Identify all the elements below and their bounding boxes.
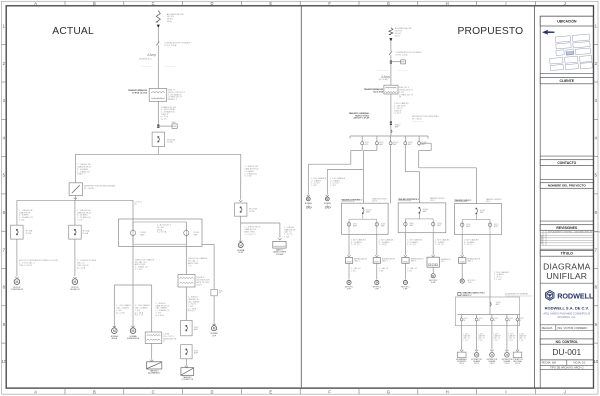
svg-text:NOMBRE DEL PROYECTO: NOMBRE DEL PROYECTO [548,184,586,188]
wire circuit 5 feeds panel 3 [421,142,432,144]
secondary bus [17,199,133,201]
svg-text:REALIZA: REALIZA [542,326,553,330]
svg-text:RODWELL: RODWELL [557,292,594,301]
branch circuit 1 [461,315,463,318]
branch circuit 5 [517,315,519,318]
svg-text:(100KVA, 4.2): (100KVA, 4.2) [139,58,152,61]
motor compressor 2 [72,279,78,285]
fan load [505,353,510,358]
motor [375,280,379,284]
main bus 220V [75,153,240,155]
svg-text:B: B [93,1,96,6]
motor pump P1 [306,197,310,201]
svg-text:PROPUESTO: PROPUESTO [458,26,524,37]
svg-text:10: 10 [1,359,6,364]
svg-text:ACTUAL: ACTUAL [52,26,94,37]
svg-text:NO. CONTROL: NO. CONTROL [556,340,578,344]
lighting panel A [147,362,162,369]
svg-text:F: F [328,1,331,6]
panel branch breaker left [348,222,350,223]
svg-text:M: M [132,329,135,333]
wire [376,234,378,255]
utility supply incoming line (zigzag) [156,11,160,22]
wire [185,287,187,321]
breaker for new panel [490,302,491,306]
transformer T1 [149,88,167,101]
arrow [74,198,77,200]
breaker feeder 1 [181,321,193,336]
wire [113,285,115,328]
bus breaker circuit 4 [404,136,406,142]
revision table [540,232,593,234]
transfer switch [69,183,82,196]
arrow [432,255,435,257]
panel branch breaker right [432,221,434,222]
svg-text:FECHA: N/A: FECHA: N/A [542,361,557,365]
bus breaker circuit 1 [361,136,363,142]
svg-text:TÍTULO: TÍTULO [561,251,574,256]
svg-text:4 Amp: 4 Amp [147,53,156,57]
svg-text:D: D [210,1,213,6]
location map blocks [548,34,593,72]
arrow [113,326,116,328]
wire [390,41,392,51]
arrow [490,350,493,352]
bus breaker circuit 2 [376,136,378,142]
arrow [278,238,281,240]
branch circuit 3 [491,315,493,318]
svg-text:UBICACIÓN: UBICACIÓN [557,18,577,23]
wire [461,263,463,279]
wire with tee [240,216,242,223]
svg-text:CLIENTE: CLIENTE [560,79,575,83]
metering CT [390,60,392,61]
svg-text:MED.: MED. [172,122,177,124]
wire [185,359,187,366]
svg-text:kWh: kWh [401,62,405,64]
arrow [516,350,519,352]
arrow [73,277,76,279]
svg-text:M: M [348,281,350,285]
new lighting panel label [458,292,461,295]
wire [16,200,18,225]
svg-text:G: G [387,389,390,394]
svg-text:J: J [564,389,566,394]
svg-text:APODACA, N.L.: APODACA, N.L. [557,315,576,319]
svg-text:__________: __________ [396,69,409,71]
distribution enclosure [455,297,519,326]
breaker feeder 2 [181,345,193,359]
wire [461,234,463,255]
fan load [474,353,479,358]
bus breaker circuit 3 [390,136,392,142]
motor [460,279,464,283]
motor [347,280,351,284]
svg-text:__________: __________ [164,65,177,67]
svg-text:M: M [461,279,463,283]
lighting transformer / regulator [145,332,162,344]
distribution bus [458,314,520,316]
wire circuit 3 feeds panel 1 [390,146,392,203]
motor starter [373,258,380,264]
load panel box [513,352,522,358]
wire [390,94,392,136]
title block [534,6,536,388]
svg-text:M: M [15,280,18,284]
svg-text:__________: __________ [141,65,154,67]
svg-text:M: M [213,327,216,331]
starter [459,258,466,264]
wire [489,234,491,314]
motor main pump [238,243,243,248]
arrow [185,366,188,368]
svg-text:F: F [328,389,331,394]
svg-text:ING. VICTOR CORDERO: ING. VICTOR CORDERO [558,326,588,330]
wire [432,267,434,273]
motor starter [402,258,409,264]
panel main breaker [476,209,477,214]
panel breaker right [185,222,187,230]
svg-text:B: B [93,389,96,394]
arrow [326,195,329,197]
fuse cutout switch [157,42,160,46]
svg-text:EMPLAZAMIENTO GENERAL - DIAGRA: EMPLAZAMIENTO GENERAL - DIAGRAMA UNIFILA… [548,231,600,234]
svg-text:DU-001: DU-001 [552,347,581,357]
svg-text:E: E [269,389,272,394]
panel TABLERO EXISTENTE 2 [398,203,446,233]
metering CT [157,124,159,126]
svg-text:3X30AMP: 3X30AMP [194,350,199,354]
panel breaker left [132,222,134,230]
sub bus [114,284,151,286]
svg-text:UNIFILAR: UNIFILAR [546,271,587,281]
panel branch breaker left [461,222,463,223]
wire circuit 4 feeds panel 2 [404,146,406,172]
location map arrow [542,30,554,34]
arrow [505,350,508,352]
service entrance arrow [157,25,160,28]
arrow [404,255,407,257]
panel main breaker [419,208,420,213]
breaker welding [235,203,247,216]
utility supply proposed (zigzag) [389,28,393,35]
fuse cutout [389,51,392,55]
svg-text:I: I [505,1,506,6]
wire [74,239,76,276]
wire [151,285,153,332]
wire [390,55,392,85]
svg-text:M: M [113,329,116,333]
svg-text:M: M [307,198,309,201]
panel inner bus box [349,219,377,234]
wire [404,263,406,279]
wire [74,154,76,183]
svg-text:CONTACTO: CONTACTO [557,161,576,165]
wire [213,296,215,325]
lighting panel B [181,368,194,376]
motor [431,274,435,278]
svg-text:M: M [404,281,406,285]
date row [540,364,593,366]
svg-text:G: G [387,1,390,6]
motor compressor 1 [14,279,20,285]
service arrow [389,38,392,41]
wire [74,196,76,201]
motor pump P2 [325,197,329,201]
wire [185,244,187,274]
motor pump 2 [130,328,136,334]
realiza row [540,330,593,332]
wire to main bus [157,147,159,155]
svg-text:M: M [432,274,434,278]
arrow [239,200,242,202]
arrow [461,255,464,257]
soft starter drive [427,257,439,267]
arrow [15,277,18,279]
wire [432,233,434,256]
bus breaker circuit 5 [418,136,420,142]
svg-text:10: 10 [593,359,598,364]
svg-text:RODWELL S.A. DE C.V.: RODWELL S.A. DE C.V. [545,305,589,310]
safety switch [211,289,217,296]
wire [376,263,378,279]
wire [157,28,159,42]
svg-text:J: J [564,1,566,6]
wire [157,45,159,88]
transformer T1 proposed [384,85,398,94]
wire [16,239,18,276]
wire [132,244,134,285]
capacitor bank [273,241,286,248]
variable frequency drive [178,275,195,288]
breaker CCM-1 [11,225,24,239]
panel inner bus box [405,219,433,233]
svg-text:D: D [210,389,213,394]
motor starter [345,258,352,264]
wire [157,101,159,124]
svg-text:C: C [152,1,155,6]
motor pump 1 [112,328,118,334]
svg-text:kWh: kWh [173,126,177,128]
arrow [239,241,242,243]
wire [132,285,134,328]
panel branch breaker right [489,222,491,223]
svg-text:A: A [34,1,37,6]
fan load [490,353,495,358]
wire [151,344,153,360]
arrow [375,255,378,257]
wire circuit 1 to pump motor [361,146,363,151]
wire [132,200,134,222]
arrow [213,324,216,326]
load panel box [457,352,466,358]
main CT [390,121,392,122]
svg-text:H: H [446,389,449,394]
arrow [347,255,350,257]
panel branch breaker right [376,222,378,223]
svg-text:(115 KVA): (115 KVA) [379,78,388,81]
svg-text:I: I [505,389,506,394]
panel main breaker [363,208,364,213]
svg-text:M: M [239,243,242,247]
svg-text:__________: __________ [377,69,390,71]
proposed main bus [350,135,428,137]
motor extractor [212,326,217,331]
wire [240,154,242,199]
svg-text:TIPO DE ARCHIVO: ARCH 2: TIPO DE ARCHIVO: ARCH 2 [550,365,584,369]
panel TABLERO NUEVO 1 [454,204,501,235]
arrow [460,350,463,352]
wire [348,234,350,255]
watthour meter [391,61,401,63]
panel inner bus box [462,220,490,235]
svg-text:HOJA: 1/1: HOJA: 1/1 [574,361,587,365]
wire circuit 2 to panel 1 and pump 2 [376,146,378,151]
svg-text:ALIMENTADOR GENERAL: ALIMENTADOR GENERAL [505,292,528,295]
svg-text:M: M [376,281,378,285]
svg-text:H: H [446,1,449,6]
panel branch breaker left [404,221,406,222]
main breaker mark [391,130,392,133]
motor [403,280,407,284]
svg-text:3X30AMP: 3X30AMP [194,327,199,331]
svg-text:M: M [326,198,328,201]
svg-text:E: E [269,1,272,6]
wire from panel to motor feeder [202,243,214,245]
main breaker [152,132,165,146]
wire [404,233,406,255]
branch circuit 2 [476,315,478,318]
svg-text:C: C [152,389,155,394]
breaker compressor 2 [69,225,82,239]
svg-text:REVISIONES: REVISIONES [556,226,577,230]
arrow [131,326,134,328]
svg-text:A: A [34,389,37,394]
company logo [546,290,554,300]
distribution panel (tablero general) [119,219,203,247]
svg-text:M: M [73,280,76,284]
branch circuit 4 [506,315,508,318]
wire [348,263,350,279]
wire [74,200,76,225]
watthour meter WH [158,125,172,127]
arrow [475,350,478,352]
arrow [150,360,153,362]
svg-text:REVISION: REVISION [542,235,544,244]
arrow [307,195,310,197]
panel TABLERO EXISTENTE 1 [341,203,388,234]
